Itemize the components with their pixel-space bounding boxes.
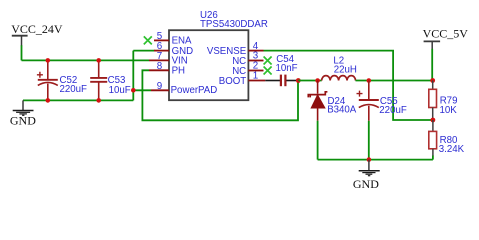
- power flag VCC_24V: [11, 22, 63, 46]
- svg-text:PH: PH: [172, 66, 185, 77]
- junction C55 top: [367, 78, 372, 83]
- pin 2 NC: [232, 61, 263, 77]
- pin 7 VIN: [149, 51, 188, 67]
- svg-text:B340A: B340A: [327, 105, 357, 116]
- svg-text:PowerPAD: PowerPAD: [171, 85, 218, 96]
- wire R80 to GND rail: [432, 156, 434, 160]
- svg-text:220uF: 220uF: [379, 105, 407, 116]
- inductor L2: [322, 55, 357, 80]
- wire C54 to PH node: [286, 80, 298, 82]
- wire PH node routing: [142, 70, 298, 120]
- svg-text:10nF: 10nF: [276, 63, 298, 74]
- junction C53 top: [96, 58, 101, 63]
- svg-text:22uH: 22uH: [334, 64, 357, 75]
- junction feedback node: [431, 118, 436, 123]
- no-connect X pin 5: [144, 36, 152, 44]
- wire BOOT to C54: [265, 80, 280, 82]
- capacitor C55: [357, 81, 407, 121]
- junction PH/C54 node: [296, 78, 301, 83]
- no-connect X pin 2: [264, 67, 272, 75]
- wire D24 anode down: [317, 121, 319, 160]
- IC U26 TPS5430DDAR: [169, 10, 268, 100]
- resistor R79: [429, 81, 458, 121]
- svg-text:TPS5430DDAR: TPS5430DDAR: [200, 19, 268, 30]
- capacitor C53: [90, 60, 131, 100]
- svg-text:GND: GND: [10, 113, 36, 127]
- power flag VCC_5V: [423, 26, 469, 49]
- wire 24V top rail: [22, 59, 150, 61]
- junction PowerPAD node: [131, 88, 136, 93]
- junction C53 bottom: [96, 98, 101, 103]
- pin 4 VSENSE: [207, 41, 264, 57]
- svg-text:VCC_5V: VCC_5V: [423, 26, 469, 40]
- wire L2 to output: [356, 80, 433, 82]
- capacitor C52: [37, 60, 87, 100]
- wire VCC_5V vertical: [431, 49, 433, 81]
- junction C52 top: [46, 58, 51, 63]
- pin 5 ENA: [154, 31, 192, 47]
- wire C55 bottom down: [368, 121, 370, 160]
- junction VCC_5V output node: [430, 78, 435, 83]
- pin 9 PowerPAD: [151, 81, 217, 96]
- svg-text:8: 8: [157, 61, 163, 72]
- junction D24 top: [315, 78, 320, 83]
- svg-text:VCC_24V: VCC_24V: [11, 22, 63, 36]
- resistor R80: [429, 120, 465, 156]
- pin 3 NC: [232, 51, 263, 67]
- ground GND left: [10, 100, 36, 127]
- wire GND vertical to IC: [132, 51, 134, 101]
- junction C52 bottom: [46, 98, 51, 103]
- no-connect X pin 3: [264, 57, 272, 65]
- pin 6 GND: [154, 41, 193, 57]
- wire pin6 GND: [133, 50, 154, 52]
- svg-text:9: 9: [157, 81, 162, 92]
- wire GND bottom rail right: [318, 159, 433, 161]
- svg-text:10K: 10K: [440, 105, 458, 116]
- diode D24 B340A: [308, 81, 357, 121]
- junction GND rail: [367, 157, 372, 162]
- pin 8 PH: [149, 61, 185, 77]
- wire pin9 PowerPAD: [133, 89, 151, 91]
- pin 1 BOOT: [219, 71, 266, 87]
- svg-text:220uF: 220uF: [60, 84, 88, 95]
- svg-text:10uF: 10uF: [109, 85, 131, 96]
- capacitor C54: [276, 54, 298, 86]
- svg-text:BOOT: BOOT: [219, 76, 247, 87]
- wire VCC_24V vertical: [21, 45, 23, 60]
- wire PH node to L2: [298, 80, 321, 82]
- ground GND right: [353, 160, 380, 191]
- svg-text:3.24K: 3.24K: [439, 144, 465, 155]
- wire GND bottom rail left: [23, 99, 133, 101]
- svg-text:1: 1: [253, 71, 258, 82]
- wire VSENSE feedback: [264, 51, 433, 120]
- svg-text:GND: GND: [353, 177, 379, 191]
